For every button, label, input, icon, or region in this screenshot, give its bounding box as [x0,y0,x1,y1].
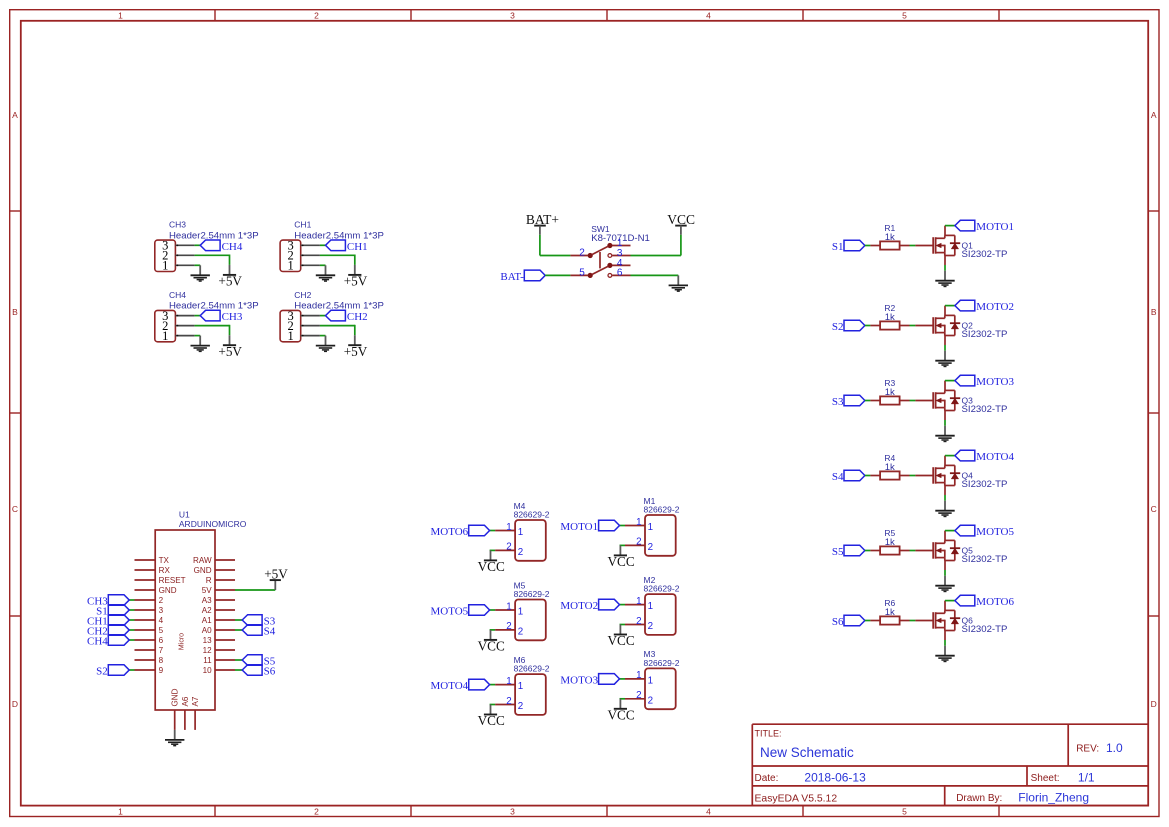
svg-text:+5V: +5V [218,344,242,359]
svg-text:826629-2: 826629-2 [644,658,680,668]
resistor R5 1k [870,528,909,555]
svg-text:1.0: 1.0 [1106,741,1123,755]
connector M5 (826629-2) [495,580,550,640]
svg-text:VCC: VCC [478,559,505,574]
wire [945,600,955,602]
net flag S6 [242,665,276,678]
power VCC [478,550,505,574]
net flag S3 [242,615,276,628]
net flag S1 [96,605,129,618]
svg-text:+5V: +5V [264,567,288,582]
wire [945,455,955,457]
svg-text:BAT+: BAT+ [526,212,559,227]
wire VCC to pin3 [631,235,681,256]
svg-text:1: 1 [287,259,293,273]
svg-text:826629-2: 826629-2 [644,584,680,594]
wire [620,698,626,700]
svg-text:5: 5 [159,626,164,635]
svg-text:1: 1 [162,259,168,273]
svg-text:1: 1 [287,329,293,343]
svg-text:CH2: CH2 [294,290,311,300]
power +5V [344,265,368,289]
svg-text:1: 1 [648,522,653,533]
connector CH4 (Header2.54mm 1*3P) [155,290,259,343]
svg-text:2: 2 [636,690,641,701]
wire [129,619,134,621]
svg-text:826629-2: 826629-2 [644,505,680,515]
wire [865,400,871,402]
svg-text:MOTO3: MOTO3 [976,376,1014,388]
svg-text:2: 2 [506,696,511,707]
svg-text:1: 1 [648,601,653,612]
svg-text:1: 1 [162,329,168,343]
power VCC [478,705,505,729]
svg-text:A: A [1151,110,1157,120]
svg-text:CH3: CH3 [222,311,243,323]
svg-text:Drawn By:: Drawn By: [956,793,1002,804]
wire [944,345,946,351]
wire [865,620,871,622]
svg-text:4: 4 [706,807,711,817]
svg-text:MOTO1: MOTO1 [976,221,1014,233]
ground [935,426,954,442]
ground [935,576,954,592]
svg-text:2: 2 [636,616,641,627]
resistor R1 1k [870,223,909,249]
wire [129,599,134,601]
svg-text:A7: A7 [191,696,200,706]
svg-text:5: 5 [902,11,907,21]
net flag S4 [832,470,865,483]
svg-text:A2: A2 [202,606,212,615]
svg-text:MOTO5: MOTO5 [430,606,468,618]
svg-text:2: 2 [314,807,319,817]
svg-text:CH4: CH4 [169,290,186,300]
net flag CH3 [87,595,129,608]
power VCC [667,212,695,235]
transistor Q1 SI2302-TP [915,226,1007,265]
connector CH2 (Header2.54mm 1*3P) [280,290,384,343]
svg-text:4: 4 [159,616,164,625]
wire [490,629,496,631]
net flag CH3 [200,310,243,323]
svg-text:BAT-: BAT- [500,271,524,283]
svg-text:S3: S3 [832,396,844,408]
transistor Q5 SI2302-TP [915,531,1007,570]
wire pin6 to ground [631,274,679,276]
power +5V [218,335,242,359]
wire [620,678,626,680]
svg-text:826629-2: 826629-2 [514,664,550,674]
wire [490,704,496,706]
net flag S2 [96,665,129,678]
svg-text:MOTO4: MOTO4 [430,680,468,692]
net flag MOTO5 [430,605,489,618]
ground [669,275,688,291]
svg-text:1: 1 [518,681,523,692]
svg-text:11: 11 [203,656,212,665]
net flag S1 [832,240,865,253]
svg-text:1: 1 [636,517,641,528]
svg-text:+5V: +5V [344,344,368,359]
svg-text:CH2: CH2 [347,311,368,323]
svg-text:Sheet:: Sheet: [1031,773,1060,784]
net flag MOTO1 [560,520,619,533]
svg-text:1: 1 [506,601,511,612]
svg-text:1: 1 [506,522,511,533]
svg-text:RX: RX [159,566,171,575]
svg-text:2: 2 [314,11,319,21]
svg-text:S2: S2 [832,321,844,333]
svg-text:TX: TX [159,556,170,565]
svg-text:VCC: VCC [478,639,505,654]
svg-text:C: C [12,504,18,514]
wire [865,475,871,477]
ground [935,271,954,287]
svg-text:A: A [12,110,18,120]
net flag S5 [242,655,276,668]
svg-text:MOTO5: MOTO5 [976,526,1014,538]
wire [910,550,916,552]
svg-text:MOTO2: MOTO2 [976,301,1014,313]
svg-text:826629-2: 826629-2 [514,510,550,520]
svg-text:VCC: VCC [608,554,635,569]
svg-text:SI2302-TP: SI2302-TP [962,479,1008,490]
wire [945,380,955,382]
wire [865,550,871,552]
wire [235,619,242,621]
svg-text:8: 8 [159,656,164,665]
svg-text:2: 2 [159,596,164,605]
net flag CH2 [326,310,368,323]
svg-text:S6: S6 [832,616,844,628]
svg-text:10: 10 [203,666,213,675]
svg-text:3: 3 [510,11,515,21]
wire [865,245,871,247]
svg-text:13: 13 [203,636,213,645]
svg-text:2018-06-13: 2018-06-13 [804,771,866,785]
svg-text:6: 6 [617,268,623,279]
svg-text:S5: S5 [832,546,844,558]
svg-text:1k: 1k [885,387,895,398]
wire [945,305,955,307]
power VCC [608,545,635,569]
svg-text:12: 12 [203,646,213,655]
wire [320,255,355,265]
svg-text:VCC: VCC [667,212,695,227]
resistor R2 1k [870,303,909,330]
svg-text:1: 1 [118,807,123,817]
svg-text:GND: GND [159,586,177,595]
net flag MOTO6 [430,525,489,538]
svg-text:EasyEDA V5.5.12: EasyEDA V5.5.12 [755,793,838,804]
net flag MOTO1 [955,220,1014,233]
svg-text:SI2302-TP: SI2302-TP [962,624,1008,635]
wire [320,244,326,246]
net flag MOTO5 [955,525,1015,538]
svg-text:7: 7 [159,646,164,655]
wire BAT+ to pin2 [540,235,571,256]
svg-text:Florin_Zheng: Florin_Zheng [1018,791,1089,805]
svg-text:B: B [12,307,18,317]
svg-text:SI2302-TP: SI2302-TP [962,249,1008,260]
wire [490,530,496,532]
wire [490,609,496,611]
wire [129,609,134,611]
connector M2 (826629-2) [625,575,680,635]
svg-text:VCC: VCC [608,707,635,722]
svg-text:1k: 1k [885,232,895,243]
wire [945,530,955,532]
wire [910,620,916,622]
ground [935,501,954,517]
wire [620,624,626,626]
svg-text:CH3: CH3 [169,220,186,230]
svg-text:A0: A0 [202,626,212,635]
svg-text:1/1: 1/1 [1078,771,1095,785]
svg-text:GND: GND [194,566,212,575]
wire [620,544,626,546]
net flag MOTO3 [955,375,1015,388]
svg-text:CH4: CH4 [222,241,243,253]
wire [944,420,946,426]
svg-text:A1: A1 [202,616,212,625]
svg-text:D: D [12,699,18,709]
wire [945,225,955,227]
svg-text:2: 2 [506,621,511,632]
svg-text:CH4: CH4 [87,636,108,648]
svg-text:3: 3 [159,606,164,615]
wire [320,325,355,335]
svg-text:9: 9 [159,666,164,675]
svg-text:1k: 1k [885,312,895,323]
wire [129,629,134,631]
svg-text:1: 1 [506,676,511,687]
wire [620,604,626,606]
svg-text:2: 2 [518,547,523,558]
wire [235,669,242,671]
wire [944,570,946,576]
svg-text:1k: 1k [885,607,895,618]
net flag MOTO2 [560,599,619,612]
net flag CH2 [87,625,129,638]
wire 5V to +5V [235,589,275,591]
wire [195,255,230,265]
net flag BAT- [500,270,545,283]
connector M1 (826629-2) [625,496,680,556]
svg-text:826629-2: 826629-2 [514,589,550,599]
svg-text:MOTO3: MOTO3 [560,674,598,686]
net flag CH4 [87,635,129,648]
svg-text:GND: GND [171,688,180,706]
svg-text:+5V: +5V [344,274,368,289]
wire [195,264,201,266]
svg-text:+5V: +5V [218,274,242,289]
power BAT+ [526,212,559,235]
wire [195,335,201,337]
svg-text:2: 2 [506,542,511,553]
wire [320,315,326,317]
svg-text:SI2302-TP: SI2302-TP [962,554,1008,565]
svg-text:MOTO2: MOTO2 [560,600,598,612]
power +5V [264,567,288,590]
wire [320,264,326,266]
wire [235,629,242,631]
wire [129,669,134,671]
svg-text:Micro: Micro [179,633,186,650]
ground [191,265,210,281]
ground [191,336,210,352]
power VCC [478,630,505,654]
transistor Q2 SI2302-TP [915,306,1007,345]
connector CH1 (Header2.54mm 1*3P) [280,220,384,273]
svg-text:SI2302-TP: SI2302-TP [962,329,1008,340]
svg-text:RAW: RAW [193,556,212,565]
IC U1 ARDUINOMICRO [135,510,247,730]
net flag MOTO2 [955,300,1014,313]
wire [129,639,134,641]
svg-text:CH1: CH1 [347,241,368,253]
net flag S2 [832,320,865,333]
svg-text:S6: S6 [264,666,276,678]
svg-text:3: 3 [510,807,515,817]
net flag S3 [832,395,865,408]
ground [935,646,954,662]
svg-text:1: 1 [518,527,523,538]
svg-text:B: B [1151,307,1157,317]
svg-text:A3: A3 [202,596,212,605]
svg-text:1: 1 [648,676,653,687]
net flag S4 [242,625,276,638]
wire [865,325,871,327]
svg-text:VCC: VCC [478,713,505,728]
wire [195,244,201,246]
svg-text:SI2302-TP: SI2302-TP [962,404,1008,415]
svg-text:1: 1 [518,607,523,618]
svg-text:VCC: VCC [608,633,635,648]
net flag CH1 [326,240,368,253]
power VCC [608,625,635,649]
connector CH3 (Header2.54mm 1*3P) [155,220,259,273]
svg-text:D: D [1151,699,1157,709]
svg-text:MOTO4: MOTO4 [976,451,1014,463]
svg-text:6: 6 [159,636,164,645]
net flag S6 [832,615,865,628]
svg-text:1k: 1k [885,537,895,548]
svg-text:5V: 5V [202,586,213,595]
resistor R4 1k [870,453,909,480]
svg-text:2: 2 [518,701,523,712]
net flag MOTO4 [430,679,489,692]
net flag MOTO6 [955,595,1015,608]
svg-text:1: 1 [118,11,123,21]
svg-text:2: 2 [648,621,653,632]
wire [944,265,946,271]
svg-text:S1: S1 [832,241,844,253]
net flag CH4 [200,240,243,253]
connector M6 (826629-2) [495,655,550,715]
wire [195,325,230,335]
svg-text:Date:: Date: [755,773,779,784]
svg-text:R: R [206,576,212,585]
connector M4 (826629-2) [495,501,550,561]
wire [490,684,496,686]
transistor Q4 SI2302-TP [915,456,1007,495]
wire [944,640,946,646]
ground [935,351,954,367]
switch SW1 K8-7071D-N1 [570,224,649,278]
svg-text:MOTO6: MOTO6 [976,596,1014,608]
svg-text:TITLE:: TITLE: [755,729,782,739]
connector M3 (826629-2) [625,649,680,709]
svg-text:S2: S2 [96,666,108,678]
svg-text:2: 2 [636,537,641,548]
svg-text:1: 1 [636,670,641,681]
net flag MOTO4 [955,450,1015,463]
svg-text:REV:: REV: [1076,744,1099,755]
svg-text:2: 2 [648,695,653,706]
resistor R6 1k [870,598,909,625]
net flag MOTO3 [560,674,619,687]
svg-text:4: 4 [706,11,711,21]
power +5V [344,335,368,359]
wire [235,659,242,661]
svg-text:S4: S4 [264,626,276,638]
svg-text:MOTO6: MOTO6 [430,526,468,538]
ground [165,730,184,746]
transistor Q6 SI2302-TP [915,601,1007,640]
ground [316,336,335,352]
svg-text:1k: 1k [885,462,895,473]
svg-text:MOTO1: MOTO1 [560,521,598,533]
svg-text:CH1: CH1 [294,220,311,230]
power VCC [608,699,635,723]
svg-text:New Schematic: New Schematic [760,745,854,760]
svg-text:RESET: RESET [159,576,186,585]
svg-text:A6: A6 [181,696,190,706]
ground [316,265,335,281]
resistor R3 1k [870,378,909,405]
svg-text:1: 1 [636,596,641,607]
wire [910,400,916,402]
wire [620,525,626,527]
wire BAT- to pin5 [545,274,570,276]
svg-text:5: 5 [902,807,907,817]
svg-text:2: 2 [648,542,653,553]
svg-text:ARDUINOMICRO: ARDUINOMICRO [179,519,247,529]
svg-text:S4: S4 [832,471,844,483]
wire [320,335,326,337]
svg-text:5: 5 [579,268,585,279]
svg-text:C: C [1151,504,1157,514]
net flag S5 [832,545,865,558]
wire [910,245,916,247]
wire [490,549,496,551]
net flag CH1 [87,615,129,628]
wire [944,495,946,501]
wire [910,325,916,327]
svg-text:2: 2 [518,627,523,638]
power +5V [218,265,242,289]
svg-text:2: 2 [579,248,585,259]
transistor Q3 SI2302-TP [915,381,1007,420]
wire [910,475,916,477]
wire [195,315,201,317]
